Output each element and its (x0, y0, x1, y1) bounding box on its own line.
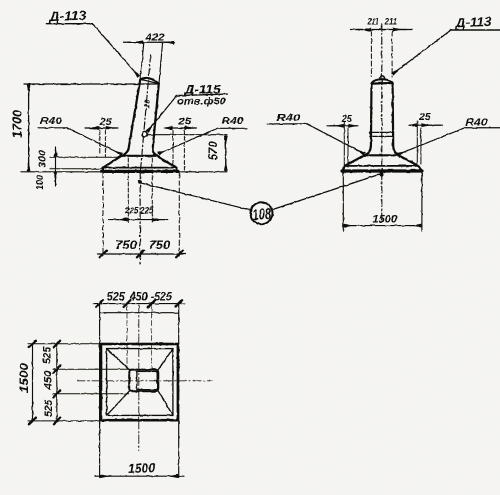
leader from circle 108 to right view node (272, 174, 381, 210)
svg-text:450: 450 (129, 292, 149, 304)
dimension 211 line (351, 29, 413, 31)
svg-text:1500: 1500 (17, 363, 31, 393)
column axis (dash-dot, inclined) (140, 55, 150, 172)
ground reference line (21, 171, 227, 173)
node dot under base (right view) (380, 172, 384, 176)
svg-text:1500: 1500 (373, 213, 398, 225)
plan vertical centerline (138, 305, 140, 451)
horizontal tie line below top dimension (100, 312, 179, 314)
leader shelf Д-115 (177, 94, 228, 96)
svg-text:225: 225 (139, 206, 154, 216)
leader R40 left to fillet (67, 128, 122, 155)
central square (column top, offset) (137, 371, 157, 389)
svg-text:отв.ф50: отв.ф50 (177, 96, 226, 108)
extension lines below base (102, 173, 104, 256)
extension lines 25 right (172, 131, 174, 166)
extension lines 25 left (right view) (344, 122, 348, 165)
label R40 left (left view) (40, 115, 62, 127)
top reference line 1700 (24, 83, 158, 85)
dimension line 300/100 (55, 147, 57, 186)
extension lines from central square to top dimension (127, 306, 152, 370)
mark 16 inside column (142, 98, 153, 109)
extension lines plan left (28, 344, 101, 421)
column Д-113 right edge (inclined) (153, 84, 159, 156)
dimension 1700 line with arrows (28, 84, 30, 172)
svg-text:570: 570 (208, 141, 220, 161)
foundation base outline (left view) (122, 155, 157, 157)
label Д-115 (183, 85, 221, 97)
long extension verticals (100, 304, 179, 478)
foundation base outline (right view) (364, 154, 398, 156)
extension lines 422 (140, 42, 162, 83)
svg-text:1700: 1700 (11, 110, 25, 138)
dimension 422 label (144, 33, 165, 44)
leader shelf R40 (267, 123, 307, 125)
label R40 left (right view) (276, 112, 300, 124)
column cap chord (372, 82, 393, 85)
column top nub (380, 76, 385, 80)
label отв.ф50 (177, 96, 226, 108)
central square (column base, rounded R40) (129, 370, 158, 392)
column joint lines (370, 132, 394, 136)
leader Д-115 to hole (148, 96, 177, 132)
dimension 25 left (left view) label (99, 117, 113, 128)
position circle 108 (251, 202, 273, 224)
dimension 225 line (109, 219, 168, 221)
extension lines 211 (371, 31, 392, 77)
left outer dimension 1500 (plan) (32, 344, 34, 421)
extension lines 25 right (right view) (417, 121, 421, 164)
label 1500 (right view) (373, 213, 398, 225)
svg-text:525: 525 (41, 346, 53, 364)
dimension 422 arrow left (128, 41, 143, 43)
dimension 25 right (left view) label (177, 116, 192, 127)
dimension 25 left (right view) (341, 114, 352, 125)
svg-text:25: 25 (418, 112, 431, 123)
leader Д-113 right to cap (393, 30, 451, 74)
svg-text:100: 100 (35, 175, 46, 190)
svg-text:525: 525 (107, 292, 126, 304)
svg-text:25: 25 (99, 117, 113, 128)
plan horizontal centerline (77, 380, 213, 382)
dimension 422 line (123, 41, 174, 43)
oblique ticks top chain (96, 300, 182, 307)
extension lines inner chain (53, 369, 129, 393)
oblique ticks 750 (100, 251, 183, 258)
label R40 right (left view) (222, 115, 244, 127)
label 570 (208, 141, 220, 161)
plan diagonals (107, 349, 173, 416)
label R40 right (right view) (465, 117, 487, 129)
label 1700 (11, 110, 25, 138)
svg-text:R40: R40 (222, 115, 244, 127)
extension lines 25 left (99, 131, 101, 155)
leader from node to circle 108 (141, 183, 251, 210)
svg-text:108: 108 (252, 206, 272, 224)
hole отв.ф50 (142, 131, 148, 137)
dimension 225 225 labels (124, 206, 154, 216)
top dimension chain 525/450/525 labels (107, 292, 173, 304)
leader shelf R40 right (218, 127, 248, 129)
column cap (right view) (372, 79, 393, 83)
dimension 211 211 labels (367, 16, 397, 27)
leader R40 right to fillet (158, 128, 217, 154)
svg-text:750: 750 (115, 238, 137, 252)
dimension 25 left line and arrows (85, 127, 118, 129)
plan outer square (thick) (101, 344, 178, 420)
dimension stack 300/100: extension lines (50, 156, 118, 158)
dimension 422 arrow right (160, 41, 174, 43)
top dimension line (93, 303, 185, 305)
svg-text:450: 450 (42, 370, 54, 391)
left inner dimension chain 525/450/525 (plan) (56, 344, 58, 421)
svg-text:1500: 1500 (128, 460, 156, 476)
plan inner square (107, 349, 173, 416)
svg-text:300: 300 (37, 150, 49, 168)
svg-text:525: 525 (43, 399, 55, 417)
column axis (right view, dash-dot) (381, 24, 383, 222)
svg-text:Д-113: Д-113 (454, 14, 492, 31)
label 100 (35, 175, 46, 190)
axis below base (dash-dot) (139, 172, 141, 265)
oblique ticks inner chain (53, 341, 60, 425)
svg-text:R40: R40 (465, 117, 487, 129)
leader shelf R40 left (38, 127, 67, 129)
svg-text:211: 211 (384, 16, 397, 27)
column Д-113 left edge (inclined) (123, 79, 141, 155)
dimension 570 line (225, 135, 227, 171)
label Д-113 (left view) (48, 7, 88, 24)
label 300 (37, 150, 49, 168)
svg-text:211: 211 (367, 16, 379, 27)
leader line Д-113 to column cap (93, 24, 139, 76)
leader shelf R40 right (465, 127, 500, 129)
base slab bottom right view (thick) (343, 169, 423, 172)
base slab bottom (thick) (102, 170, 179, 173)
svg-text:750: 750 (149, 238, 171, 252)
svg-text:Д-113: Д-113 (48, 7, 88, 24)
leader R40 to left fillet (307, 124, 364, 154)
svg-text:25: 25 (177, 116, 192, 127)
svg-text:225: 225 (124, 206, 139, 216)
leader R40 right to fillet (398, 128, 465, 155)
bottom dimension 1500 (plan) (95, 475, 184, 477)
leader shelf Д-113 (46, 23, 92, 25)
svg-text:25: 25 (341, 114, 352, 125)
column Д-113 edges (right view) (364, 84, 371, 156)
dimension 1500 line (right view) (343, 225, 422, 227)
extension lines 1500 (right view) (343, 173, 422, 232)
leader shelf Д-113 right (451, 29, 500, 31)
dimension 750 line (97, 253, 185, 255)
dimension 25 right (right view) (418, 112, 431, 123)
column cap chord (140, 79, 159, 83)
svg-text:R40: R40 (276, 112, 300, 124)
oblique ticks outer 1500 (29, 341, 36, 425)
label Д-113 (right view) (454, 14, 492, 31)
node dot under base (left view) (138, 180, 142, 184)
svg-text:R40: R40 (40, 115, 62, 127)
dimension 750 750 labels (115, 238, 170, 252)
column top cap (dome) (140, 78, 159, 84)
hole level line to 570 dim (148, 134, 227, 136)
dimension 25 right line and arrows (165, 127, 197, 129)
